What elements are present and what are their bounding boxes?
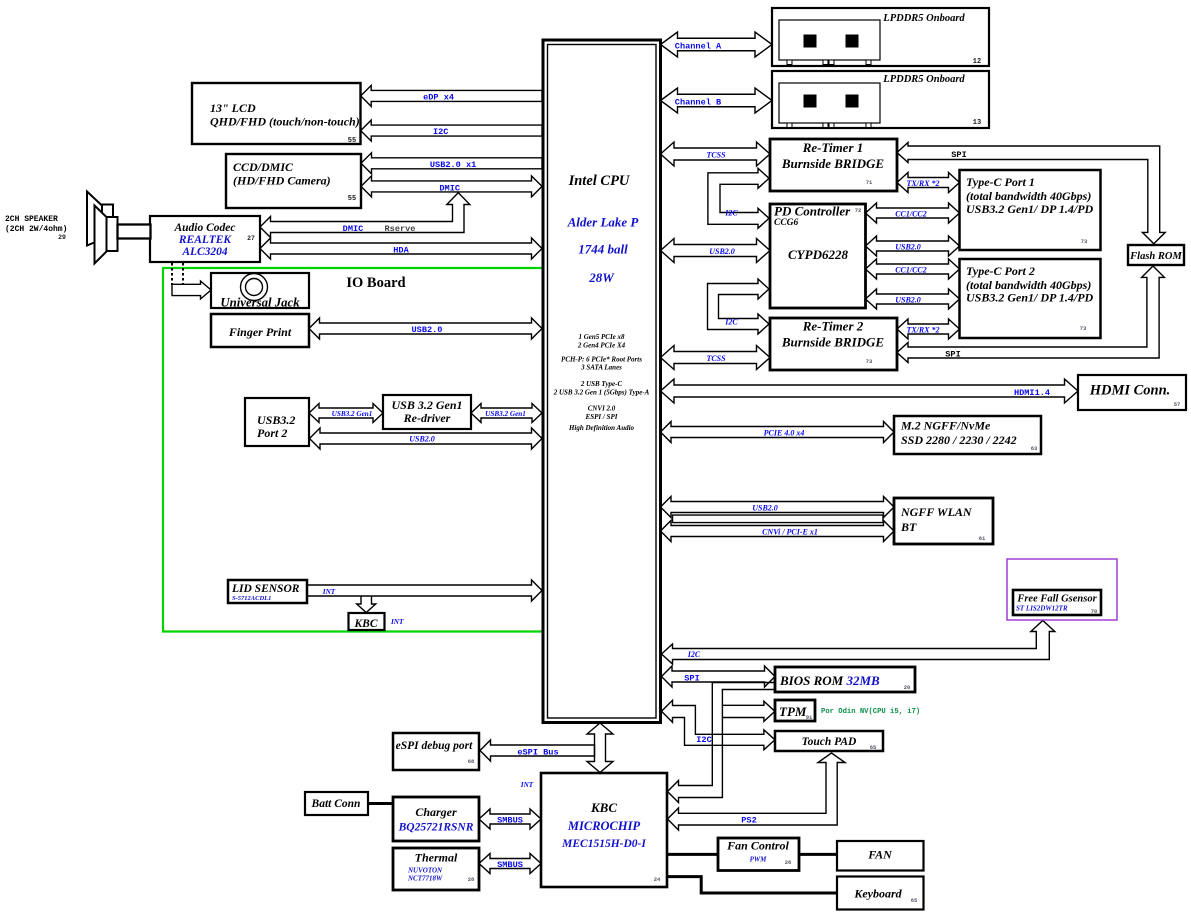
svg-text:SPI: SPI [684,673,699,683]
svg-text:Por Odin NV(CPU i5, i7): Por Odin NV(CPU i5, i7) [821,708,920,716]
svg-text:73: 73 [1080,325,1087,332]
svg-text:SMBUS: SMBUS [497,860,523,870]
svg-text:Alder Lake P: Alder Lake P [567,215,640,230]
svg-text:USB2.0: USB2.0 [709,247,735,256]
svg-text:I2C: I2C [724,209,738,218]
svg-text:73: 73 [866,358,873,365]
svg-text:IO Board: IO Board [346,275,405,291]
svg-text:USB2.0: USB2.0 [412,325,443,335]
svg-text:71: 71 [866,179,873,186]
svg-text:Re-driver: Re-driver [403,411,451,425]
svg-text:INT: INT [390,618,404,626]
svg-text:ESPI / SPI: ESPI / SPI [585,413,618,421]
svg-text:TPM: TPM [779,704,807,719]
svg-text:HDMI Conn.: HDMI Conn. [1089,383,1171,399]
svg-text:USB2.0: USB2.0 [752,504,778,513]
svg-text:55: 55 [348,195,356,203]
svg-text:Channel B: Channel B [675,98,721,108]
svg-text:2 USB 3.2 Gen 1 (5Gbps) Type-A: 2 USB 3.2 Gen 1 (5Gbps) Type-A [553,389,650,397]
svg-text:13" LCD: 13" LCD [210,101,256,115]
svg-text:61: 61 [979,535,986,542]
svg-text:USB3.2 Gen1/ DP 1.4/PD: USB3.2 Gen1/ DP 1.4/PD [966,291,1094,305]
svg-text:HDA: HDA [393,245,409,255]
svg-text:USB3.2 Gen1: USB3.2 Gen1 [485,410,526,418]
svg-text:USB 3.2 Gen1: USB 3.2 Gen1 [391,398,462,412]
svg-text:BQ25721RSNR: BQ25721RSNR [398,822,474,834]
svg-text:INT: INT [322,588,336,596]
svg-text:28W: 28W [588,270,615,285]
svg-text:24: 24 [654,876,661,883]
svg-text:MEC1515H-D0-I: MEC1515H-D0-I [561,838,646,850]
svg-text:eDP x4: eDP x4 [423,93,454,103]
svg-text:73: 73 [1081,238,1088,245]
svg-text:CCD/DMIC: CCD/DMIC [233,160,294,174]
svg-text:CC1/CC2: CC1/CC2 [895,266,927,275]
svg-text:USB3.2 Gen1: USB3.2 Gen1 [332,410,373,418]
svg-text:65: 65 [870,744,877,751]
svg-text:SMBUS: SMBUS [497,816,523,826]
svg-text:3 SATA Lanes: 3 SATA Lanes [580,364,622,372]
svg-text:ALC3204: ALC3204 [181,246,228,258]
svg-text:PCIE 4.0 x4: PCIE 4.0 x4 [764,429,805,438]
svg-text:Type-C Port 2: Type-C Port 2 [966,264,1035,278]
svg-text:Burnside BRIDGE: Burnside BRIDGE [781,156,885,171]
svg-text:MICROCHIP: MICROCHIP [567,819,641,833]
svg-text:65: 65 [911,897,918,904]
svg-text:TX/RX *2: TX/RX *2 [906,179,939,188]
svg-text:Re-Timer 1: Re-Timer 1 [802,140,864,155]
svg-text:USB2.0: USB2.0 [895,296,921,305]
svg-text:BT: BT [900,520,917,534]
svg-text:Thermal: Thermal [415,851,458,865]
svg-text:USB2.0: USB2.0 [409,435,435,444]
svg-text:KBC: KBC [353,618,377,630]
svg-text:CNVI 2.0: CNVI 2.0 [588,405,616,413]
svg-text:FAN: FAN [867,848,893,862]
svg-text:Intel CPU: Intel CPU [568,173,631,189]
svg-text:Fan Control: Fan Control [726,839,789,853]
svg-text:Charger: Charger [415,805,457,819]
svg-text:68: 68 [468,758,475,765]
svg-text:QHD/FHD (touch/non-touch): QHD/FHD (touch/non-touch) [210,115,360,129]
svg-text:DMIC: DMIC [439,184,460,194]
svg-text:Re-Timer 2: Re-Timer 2 [802,319,864,334]
svg-text:70: 70 [1091,608,1098,615]
svg-text:91: 91 [806,714,813,721]
svg-text:29: 29 [58,234,66,241]
svg-text:LPDDR5 Onboard: LPDDR5 Onboard [882,74,965,85]
svg-text:I2C: I2C [696,735,711,745]
svg-text:Flash ROM: Flash ROM [1129,251,1182,262]
svg-text:PD Controller: PD Controller [774,204,851,219]
svg-text:SPI: SPI [945,350,960,360]
svg-text:1744 ball: 1744 ball [578,242,628,257]
svg-text:(HD/FHD Camera): (HD/FHD Camera) [233,174,331,188]
svg-text:TCSS: TCSS [706,151,726,160]
svg-text:Batt Conn: Batt Conn [311,798,361,810]
svg-text:USB3.2: USB3.2 [257,413,295,427]
svg-text:(2CH 2W/4ohm): (2CH 2W/4ohm) [5,225,67,234]
svg-text:CYPD6228: CYPD6228 [788,247,848,262]
svg-text:SPI: SPI [951,150,966,160]
svg-text:NGFF WLAN: NGFF WLAN [900,505,973,519]
svg-text:KBC: KBC [590,800,617,815]
svg-text:55: 55 [348,137,356,145]
svg-text:Keyboard: Keyboard [853,887,902,901]
svg-text:Finger Print: Finger Print [228,325,292,339]
svg-text:13: 13 [973,119,981,127]
svg-text:20: 20 [904,684,911,691]
svg-text:NCT7718W: NCT7718W [407,875,443,883]
svg-text:2 Gen4 PCIe X4: 2 Gen4 PCIe X4 [577,342,626,350]
svg-text:Touch PAD: Touch PAD [802,736,857,748]
svg-text:LPDDR5 Onboard: LPDDR5 Onboard [882,13,965,24]
svg-text:ST LIS2DW12TR: ST LIS2DW12TR [1016,605,1068,613]
svg-text:I2C: I2C [724,318,738,327]
svg-text:NUVOTON: NUVOTON [407,867,443,875]
svg-text:Free Fall Gsensor: Free Fall Gsensor [1016,594,1097,605]
svg-text:2 USB Type-C: 2 USB Type-C [580,380,623,388]
svg-text:Rserve: Rserve [385,224,416,234]
svg-text:INT: INT [520,781,534,789]
svg-text:(total bandwidth 40Gbps): (total bandwidth 40Gbps) [966,189,1091,203]
svg-text:PS2: PS2 [741,816,756,826]
svg-text:Burnside BRIDGE: Burnside BRIDGE [781,335,885,350]
svg-text:USB2.0: USB2.0 [895,243,921,252]
svg-text:PWM: PWM [750,856,768,864]
svg-text:12: 12 [973,58,981,66]
svg-text:CCG6: CCG6 [774,218,799,228]
svg-text:1 Gen5 PCIe x8: 1 Gen5 PCIe x8 [578,333,625,341]
svg-text:DMIC: DMIC [343,224,364,234]
svg-text:I2C: I2C [433,127,448,137]
svg-text:SSD 2280 / 2230 / 2242: SSD 2280 / 2230 / 2242 [901,433,1017,447]
svg-text:High Definition Audio: High Definition Audio [568,424,635,432]
svg-text:BIOS ROM 32MB: BIOS ROM 32MB [779,673,880,688]
svg-text:PCH-P: 6 PCIe* Root Ports: PCH-P: 6 PCIe* Root Ports [561,356,642,364]
svg-text:TCSS: TCSS [706,354,726,363]
svg-text:28: 28 [468,876,475,883]
svg-text:63: 63 [1031,445,1038,452]
svg-text:Audio Codec: Audio Codec [173,222,235,234]
svg-text:27: 27 [247,235,255,242]
svg-text:S-5712ACDL1: S-5712ACDL1 [232,595,271,602]
svg-text:USB3.2 Gen1/ DP 1.4/PD: USB3.2 Gen1/ DP 1.4/PD [966,202,1094,216]
svg-text:eSPI debug port: eSPI debug port [396,740,473,752]
svg-text:CC1/CC2: CC1/CC2 [895,210,927,219]
svg-text:CNVi / PCI-E x1: CNVi / PCI-E x1 [762,528,818,537]
svg-text:HDMI1.4: HDMI1.4 [1014,388,1050,398]
svg-text:Universal Jack: Universal Jack [220,296,300,310]
svg-text:Type-C Port 1: Type-C Port 1 [966,175,1035,189]
svg-text:72: 72 [855,207,862,214]
svg-text:57: 57 [1174,401,1181,408]
svg-text:LID SENSOR: LID SENSOR [231,583,300,595]
svg-text:M.2 NGFF/NvMe: M.2 NGFF/NvMe [900,419,991,433]
svg-text:REALTEK: REALTEK [178,234,233,246]
svg-text:eSPI Bus: eSPI Bus [517,747,558,757]
svg-text:Channel A: Channel A [675,42,722,52]
svg-text:2CH SPEAKER: 2CH SPEAKER [5,215,58,224]
svg-text:I2C: I2C [687,650,701,659]
svg-text:TX/RX *2: TX/RX *2 [906,326,939,335]
svg-text:Port 2: Port 2 [257,426,287,440]
svg-text:26: 26 [785,859,792,866]
svg-text:USB2.0 x1: USB2.0 x1 [430,160,476,170]
